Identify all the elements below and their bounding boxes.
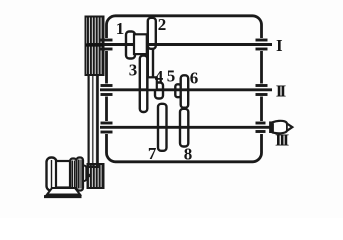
- svg-text:6: 6: [190, 69, 199, 88]
- svg-text:I: I: [276, 36, 283, 55]
- svg-text:1: 1: [116, 19, 125, 38]
- svg-text:5: 5: [167, 67, 176, 86]
- svg-text:II: II: [276, 82, 287, 101]
- svg-text:4: 4: [155, 67, 164, 86]
- svg-text:3: 3: [129, 61, 138, 80]
- svg-text:8: 8: [184, 145, 193, 164]
- svg-text:7: 7: [148, 144, 157, 163]
- svg-text:2: 2: [158, 15, 167, 34]
- svg-text:III: III: [275, 131, 290, 150]
